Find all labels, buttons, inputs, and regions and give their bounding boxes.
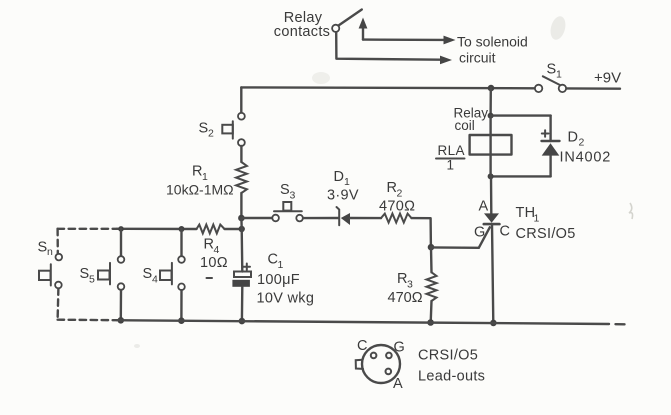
bottom rail dashed left	[58, 319, 117, 322]
node cathode bottom rail	[490, 320, 497, 327]
svg-text:S: S	[143, 266, 153, 282]
wire R4 to C1 node	[225, 228, 242, 230]
label RLA/1	[436, 143, 465, 173]
wire node to S3	[241, 217, 272, 219]
label R1	[192, 164, 208, 184]
wire thyristor anode	[490, 176, 493, 213]
svg-text:1: 1	[556, 69, 562, 81]
svg-text:Lead-outs: Lead-outs	[418, 369, 485, 385]
wire D2 branch right lower	[549, 156, 551, 177]
wire S5 bottom stub	[120, 290, 123, 320]
svg-text:A: A	[393, 376, 403, 392]
wire gate node to R3	[430, 247, 433, 272]
wire S4 bottom stub	[180, 290, 183, 321]
relay contacts label	[274, 10, 330, 40]
label CRS1/05 lead-outs	[418, 348, 485, 385]
svg-text:contacts: contacts	[274, 24, 330, 40]
label S5	[80, 266, 96, 286]
svg-text:5: 5	[89, 274, 95, 286]
relay coil RLA/1 box	[470, 135, 512, 155]
switch S4 contacts	[178, 256, 185, 263]
lead-outs pin A	[386, 369, 392, 375]
svg-text:10Ω: 10Ω	[200, 255, 228, 271]
label Relay coil	[454, 106, 489, 134]
capacitor C1 top plate	[234, 272, 251, 278]
switch S5 contacts	[118, 256, 125, 263]
wire relay coil branch from top rail	[489, 88, 492, 116]
switch S1 contacts	[535, 85, 542, 92]
svg-text:n: n	[47, 246, 53, 258]
diode D1 zener bar	[337, 207, 340, 225]
wire top rail right of S1	[566, 87, 620, 90]
thyristor TH1 triangle	[484, 213, 499, 222]
label C1 value	[257, 272, 315, 307]
switch S1 arm	[543, 76, 560, 85]
node gate junction	[428, 244, 435, 251]
switch Sn contacts	[56, 254, 63, 261]
wire S4 top stub	[180, 229, 182, 256]
svg-text:3: 3	[407, 279, 413, 291]
upper arrow shaft to solenoid	[363, 38, 444, 41]
node R3 bottom rail	[427, 319, 434, 326]
resistor R3	[427, 272, 437, 301]
svg-text:S: S	[547, 62, 557, 78]
wire R1 to S3 node	[240, 193, 242, 218]
label S4	[143, 266, 159, 286]
wire S2 drop from top rail	[240, 87, 242, 112]
svg-text:10kΩ-1MΩ: 10kΩ-1MΩ	[166, 182, 234, 198]
switch S3 button	[274, 202, 302, 211]
dashed box left edge lower	[56, 288, 59, 319]
wire C1 top lead	[240, 229, 243, 272]
relay contact pivot	[332, 25, 339, 32]
wire S3 node down to C1	[240, 218, 243, 229]
svg-text:1: 1	[534, 213, 540, 225]
wire S2 to R1	[240, 146, 242, 162]
svg-text:1: 1	[278, 259, 284, 271]
svg-text:G: G	[474, 225, 486, 241]
wire D1 to R2	[350, 217, 381, 220]
scan speckle left bottom	[134, 344, 140, 348]
wire D2 branch right upper	[549, 116, 551, 141]
svg-text:G: G	[394, 340, 406, 356]
svg-text:IN4002: IN4002	[560, 150, 612, 166]
svg-text:10V wkg: 10V wkg	[257, 291, 315, 307]
switch S4 button	[160, 263, 172, 285]
arrowhead lower (to circuit)	[440, 56, 452, 65]
dashed box left edge upper	[56, 229, 59, 254]
wire thyristor cathode to bottom rail	[492, 224, 493, 323]
node S4 bottom rail	[178, 317, 185, 324]
label To solenoid circuit	[457, 34, 528, 66]
diode D2 plus sign	[542, 130, 549, 137]
svg-text:CRSI/O5: CRSI/O5	[418, 348, 478, 364]
switch S2 button	[222, 121, 233, 138]
label S2	[199, 121, 215, 140]
switch S3 contacts	[272, 215, 279, 222]
diode D2 bar	[542, 140, 560, 142]
resistor R4	[197, 225, 225, 234]
wire left horizontal to R4	[117, 228, 197, 231]
svg-text:S: S	[80, 266, 90, 282]
capacitor C1 plus sign	[244, 264, 251, 271]
switch Sn button	[39, 264, 51, 285]
up arrow shaft	[362, 27, 364, 40]
wire R2 to gate node	[412, 218, 431, 247]
label R2	[387, 180, 403, 200]
label D2	[568, 130, 585, 149]
node C1 bottom rail	[239, 318, 246, 325]
scan smudge top middle	[548, 15, 568, 42]
wire top rail left of S1	[241, 86, 535, 89]
svg-text:A: A	[479, 199, 489, 215]
svg-text:1: 1	[344, 176, 350, 188]
label C1	[268, 252, 284, 272]
wire through relay coil	[489, 116, 491, 177]
capacitor C1 minus mark	[207, 277, 213, 279]
wire S5 top stub	[120, 229, 122, 256]
scan squiggle right margin	[629, 203, 633, 219]
diode D2 triangle	[542, 143, 560, 155]
label S3	[280, 182, 296, 202]
svg-text:S: S	[199, 121, 209, 137]
node R4 junction	[239, 226, 245, 232]
svg-text:coil: coil	[455, 118, 475, 133]
svg-text:RLA: RLA	[438, 143, 465, 158]
wire S3 to D1	[303, 217, 339, 220]
svg-text:To solenoid: To solenoid	[457, 34, 528, 50]
arrowhead up	[359, 18, 368, 29]
svg-text:D: D	[334, 169, 345, 185]
svg-text:4: 4	[152, 274, 158, 286]
capacitor C1 bottom plate	[232, 280, 250, 287]
switch S2 contacts	[238, 113, 245, 120]
node R1/S3/C1 junction	[238, 215, 245, 222]
bottom rail end dash	[616, 323, 625, 325]
svg-text:3·9V: 3·9V	[327, 188, 359, 204]
label S1	[547, 62, 563, 81]
label Sn	[38, 240, 54, 259]
node S4 top junction	[179, 226, 185, 232]
svg-text:470Ω: 470Ω	[379, 199, 415, 215]
wire gate horizontal	[431, 246, 479, 249]
resistor R1	[236, 162, 247, 193]
svg-text:S: S	[280, 182, 290, 198]
svg-text:C: C	[357, 338, 368, 354]
lead-outs tab	[356, 360, 363, 369]
svg-text:D: D	[568, 130, 579, 146]
svg-text:100μF: 100μF	[257, 272, 300, 288]
wire D2 branch bottom	[491, 175, 551, 177]
node relay coil bottom	[488, 173, 494, 179]
wire gate diagonal to thyristor	[479, 227, 490, 248]
label R4	[204, 237, 220, 257]
switch S5 button	[98, 263, 110, 285]
svg-text:2: 2	[579, 137, 585, 149]
svg-text:1: 1	[447, 158, 455, 173]
svg-text:S: S	[38, 240, 48, 256]
label R3	[397, 271, 413, 291]
svg-text:circuit: circuit	[459, 50, 496, 66]
wire C1 bottom lead	[241, 287, 244, 321]
dashed box top edge	[58, 228, 117, 230]
node junction top rail / relay coil	[488, 85, 495, 92]
node S5 bottom rail	[118, 317, 125, 324]
svg-text:2: 2	[208, 128, 214, 140]
label D1	[334, 169, 351, 188]
arrowhead upper (to solenoid)	[444, 36, 456, 45]
resistor R2	[381, 214, 412, 223]
wire D2 branch top	[491, 114, 551, 116]
lead-outs pin G	[386, 353, 392, 359]
thyristor TH1 cathode bar	[484, 223, 500, 226]
svg-text:TH: TH	[516, 205, 536, 221]
node relay coil top	[488, 113, 494, 119]
relay contact arm	[339, 10, 362, 26]
node S5 top junction	[118, 226, 124, 232]
svg-text:3: 3	[290, 190, 296, 202]
label TH1	[516, 205, 540, 225]
svg-text:+9V: +9V	[594, 70, 621, 87]
wire R3 to bottom rail	[430, 301, 433, 322]
svg-text:470Ω: 470Ω	[388, 290, 423, 306]
wire relay contact to lower arrow	[336, 33, 441, 60]
svg-text:CRSI/O5: CRSI/O5	[516, 226, 576, 242]
lead-outs can body	[362, 345, 400, 383]
svg-text:C: C	[500, 224, 511, 240]
lead-outs pin C	[371, 353, 377, 359]
scan smudge above S2	[312, 72, 330, 84]
bottom rail main	[117, 320, 609, 324]
diode D1 triangle	[341, 213, 350, 225]
